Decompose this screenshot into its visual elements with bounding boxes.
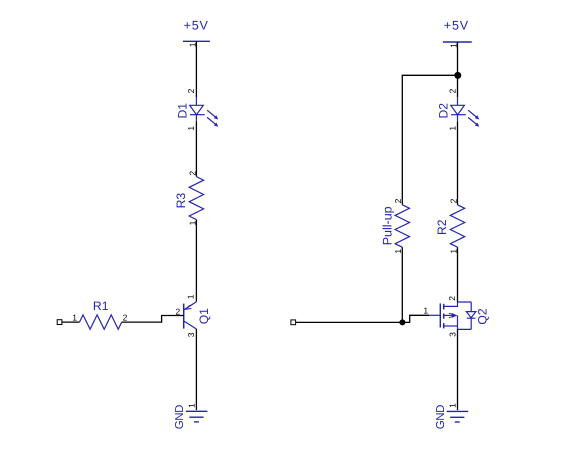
input port (right) (291, 320, 296, 325)
junction node (gate) (399, 319, 405, 325)
svg-text:+5V: +5V (184, 19, 209, 33)
wire Q2 source to GND (457, 329, 459, 410)
wire D1 to R3 (195, 121, 197, 176)
svg-text:2: 2 (448, 198, 458, 203)
wire R3 to Q1 collector (195, 220, 197, 302)
svg-text:2: 2 (123, 313, 128, 323)
svg-text:2: 2 (186, 88, 196, 93)
Q2 bulk arrowhead (452, 313, 457, 318)
svg-text:GND: GND (435, 405, 447, 429)
junction node (top) (454, 72, 461, 79)
ground symbol (left) (186, 411, 208, 422)
LED D2 arrowheads (475, 115, 479, 119)
svg-text:1: 1 (447, 403, 457, 408)
LED D1 arrowheads (214, 115, 218, 119)
svg-text:2: 2 (393, 198, 403, 203)
svg-text:1: 1 (423, 306, 428, 316)
resistor Pull-up (395, 205, 409, 247)
svg-text:1: 1 (447, 126, 457, 131)
wire port to junction to Q2 gate (with step) (296, 315, 430, 322)
svg-text:1: 1 (186, 126, 196, 131)
svg-text:R3: R3 (174, 193, 188, 209)
wire R2 to Q2 drain (457, 247, 459, 302)
svg-text:Q1: Q1 (197, 308, 211, 324)
svg-text:1: 1 (185, 294, 195, 299)
svg-text:3: 3 (447, 332, 457, 337)
svg-text:D1: D1 (175, 103, 189, 119)
svg-text:+5V: +5V (444, 19, 469, 33)
svg-text:Pull-up: Pull-up (380, 206, 394, 245)
svg-text:R2: R2 (435, 219, 449, 235)
input port (left) (57, 320, 62, 325)
wire +5V to D1 (195, 41, 197, 97)
resistor R3 (189, 177, 203, 220)
wire R1 to Q1 base (with step) (122, 316, 184, 323)
LED D1 (190, 97, 216, 124)
svg-text:Q2: Q2 (475, 308, 489, 324)
resistor R1 (80, 315, 122, 329)
svg-text:3: 3 (186, 332, 196, 337)
LED D2 (451, 97, 477, 124)
resistor R2 (450, 205, 464, 247)
svg-text:2: 2 (447, 296, 457, 301)
svg-text:R1: R1 (93, 299, 109, 313)
MOSFET Q2 (429, 302, 476, 329)
svg-text:2: 2 (187, 171, 197, 176)
wire D2 to R2 (457, 121, 459, 205)
wire port to R1 (62, 321, 80, 323)
wire Q1 emitter to GND (195, 329, 197, 410)
wire junction to pull-up branch (402, 75, 457, 205)
wire +5V to D2 (457, 42, 459, 97)
svg-text:1: 1 (72, 313, 77, 323)
svg-text:D2: D2 (436, 103, 450, 119)
svg-text:GND: GND (174, 405, 186, 429)
power bar symbol (right) (443, 41, 472, 43)
svg-text:2: 2 (447, 88, 457, 93)
transistor Q1 (184, 302, 197, 329)
svg-text:1: 1 (186, 403, 196, 408)
wire pull-up to gate junction (401, 247, 403, 322)
ground symbol (right) (447, 411, 469, 422)
power bar symbol (left) (183, 40, 210, 42)
